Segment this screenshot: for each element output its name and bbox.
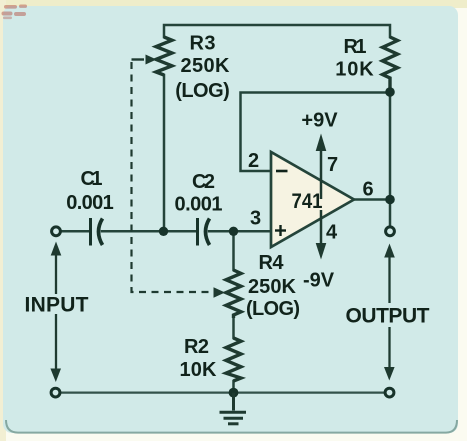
- svg-text:7: 7: [327, 154, 338, 176]
- svg-text:+9V: +9V: [301, 110, 338, 132]
- svg-text:OUTPUT: OUTPUT: [346, 305, 430, 328]
- input port arrow line: [55, 252, 57, 369]
- svg-text:3: 3: [250, 208, 261, 230]
- node: output junction: [385, 195, 395, 205]
- op-amp minus sign: [276, 170, 288, 173]
- svg-text:10K: 10K: [180, 359, 218, 381]
- svg-text:(LOG): (LOG): [175, 80, 230, 102]
- svg-text:10K: 10K: [335, 59, 374, 81]
- resistor R2 zigzag: [226, 338, 241, 381]
- svg-text:741: 741: [292, 190, 323, 213]
- svg-text:R1: R1: [344, 36, 367, 58]
- node B: C1/C2/R3 junction: [159, 227, 168, 236]
- potentiometer R4 zigzag: [226, 270, 241, 318]
- capacitor C1 label: [66, 168, 114, 214]
- svg-text:2: 2: [248, 150, 259, 172]
- node: R1 bottom / feedback junction: [385, 87, 395, 97]
- potentiometer R3 wiper arrow: [132, 58, 145, 60]
- wire node C to pin 3: [234, 230, 272, 233]
- ground: [220, 393, 247, 424]
- resistor R1 label: [335, 36, 374, 81]
- wire R3 bottom lead: [163, 75, 166, 231]
- potentiometer R4 wiper arrow: [214, 287, 226, 297]
- R3 wiper arrowhead: [146, 55, 157, 65]
- output arrowhead up: [384, 244, 395, 258]
- svg-text:0.001: 0.001: [175, 194, 223, 216]
- node C: C2/R4/pin3 junction: [229, 227, 238, 236]
- svg-text:4: 4: [326, 222, 338, 244]
- svg-text:R2: R2: [184, 336, 209, 358]
- potentiometer R4 label: [246, 252, 300, 320]
- svg-text:R3: R3: [190, 33, 216, 55]
- wire top rail: [164, 25, 390, 37]
- output terminal top: [386, 227, 395, 236]
- input arrowhead up: [51, 242, 62, 256]
- svg-text:C1: C1: [81, 168, 103, 190]
- wire input terminal to C1: [61, 230, 90, 233]
- wire output node to output terminal: [389, 200, 392, 228]
- wire node B to C2: [164, 230, 197, 233]
- pin 4 supply arrow down: [320, 210, 323, 247]
- svg-text:(LOG): (LOG): [246, 298, 300, 320]
- resistor R3 label: [175, 33, 230, 103]
- wire node C down to R4: [232, 231, 235, 270]
- wire R2 to bottom rail: [232, 381, 235, 393]
- svg-text:0.001: 0.001: [66, 192, 114, 214]
- capacitor C1: [89, 218, 92, 246]
- svg-text:R4: R4: [259, 252, 285, 274]
- output arrowhead down: [384, 367, 395, 381]
- wire R4 to R2: [232, 317, 235, 338]
- node D: bottom rail / ground junction: [229, 388, 239, 398]
- svg-text:250K: 250K: [181, 55, 231, 77]
- input arrowhead down: [50, 369, 61, 383]
- wire C1 to node B: [102, 230, 164, 233]
- wire right vertical R1 to output node: [389, 92, 392, 200]
- svg-text:INPUT: INPUT: [25, 294, 89, 317]
- resistor R3 zigzag: [156, 37, 172, 75]
- output terminal bottom: [385, 388, 394, 397]
- op-amp U1 741: [271, 152, 354, 247]
- capacitor C2: [196, 218, 199, 246]
- wire bottom rail: [60, 392, 385, 394]
- wire pin 6 from op-amp apex: [354, 198, 390, 201]
- svg-text:C2: C2: [192, 171, 215, 193]
- resistor R2 label: [180, 336, 218, 381]
- svg-text:-9V: -9V: [303, 270, 335, 292]
- wire C2 to node C: [209, 230, 234, 233]
- pin 7 supply arrow up: [320, 148, 323, 199]
- input terminal top: [52, 227, 61, 236]
- output port arrow line: [388, 254, 390, 368]
- wire feedback from pin 2 to R1 bottom: [241, 93, 391, 172]
- input terminal bottom: [51, 388, 60, 397]
- gang dashed line R3 to R4: [132, 62, 213, 292]
- op-amp plus sign: [275, 225, 286, 236]
- capacitor C2 label: [175, 171, 223, 216]
- svg-text:250K: 250K: [248, 276, 297, 298]
- svg-text:6: 6: [362, 179, 373, 201]
- resistor R1 zigzag: [383, 37, 398, 88]
